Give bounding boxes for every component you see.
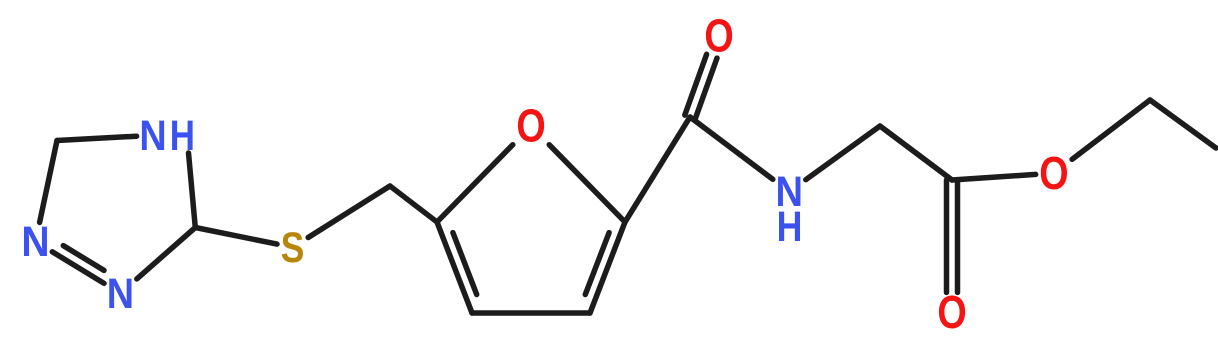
svg-text:N: N	[107, 269, 134, 318]
wire: triazole N2=N1 double bond (outer line)	[52, 252, 104, 283]
wire: triazole N2=N1 double bond (inner line)	[63, 246, 104, 271]
wire: furan C2-carbonyl C bond	[625, 117, 690, 222]
wire: N-CH2 bond	[806, 126, 880, 180]
wire: furan C5=C4 double bond (inner line)	[453, 233, 477, 295]
wire: ester C=O double bond (line 1)	[944, 180, 950, 292]
wire: ester C=O double bond (line 2)	[955, 180, 961, 292]
wire: CH2-furan C5 bond	[390, 186, 437, 222]
wire: C=O double bond (amide) (line 1)	[695, 58, 717, 119]
svg-text:S: S	[281, 224, 305, 272]
wire: furan C4-C3 bond	[472, 310, 590, 316]
wire: ester C-O bond	[952, 174, 1036, 180]
svg-text:N: N	[139, 111, 166, 160]
wire: furan C3=C2 double bond (outer line)	[590, 222, 625, 313]
wire: furan O-C2 bond	[549, 145, 625, 222]
wire: triazole C5-N4 bond	[189, 153, 196, 228]
wire: S-CH2 bond	[308, 186, 390, 238]
wire: triazole C3-N2 bond	[40, 141, 57, 223]
svg-text:H: H	[170, 113, 195, 160]
wire: O-CH2 bond	[1072, 100, 1150, 159]
wire: furan C5=C4 double bond (outer line)	[437, 222, 472, 313]
wire: C=O double bond (amide) (line 2)	[685, 54, 707, 115]
wire: CH2-CH3 bond	[1150, 100, 1216, 148]
wire: triazole N4(H)-C3 bond	[57, 136, 137, 140]
wire: CH2-ester C bond	[880, 126, 952, 180]
svg-text:H: H	[777, 203, 803, 251]
wire: triazole N1-C5 bond	[137, 228, 196, 279]
svg-text:O: O	[516, 100, 545, 151]
svg-text:O: O	[937, 287, 966, 338]
wire: C5-S bond	[195, 228, 277, 245]
svg-text:O: O	[704, 10, 733, 61]
wire: carbonyl C-N amide bond	[690, 117, 773, 179]
svg-text:O: O	[1039, 147, 1068, 198]
wire: furan C3=C2 double bond (inner line)	[585, 233, 609, 295]
svg-text:N: N	[21, 217, 49, 265]
wire: furan C5-O bond	[437, 145, 513, 222]
